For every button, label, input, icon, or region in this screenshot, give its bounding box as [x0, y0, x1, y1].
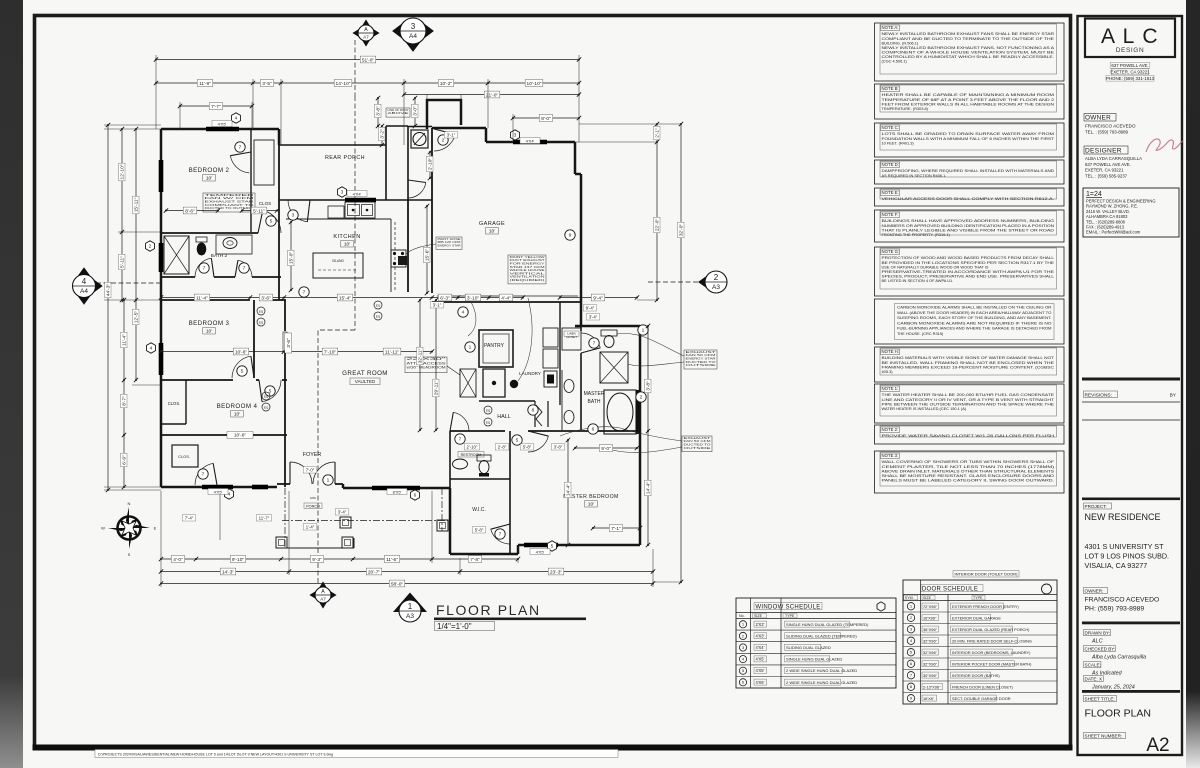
svg-text:A4: A4: [80, 288, 88, 295]
svg-text:A: A: [364, 27, 368, 33]
right dim 2-1/22-0: [656, 124, 658, 300]
bedroom2 closet door arc: [230, 156, 249, 173]
svg-text:OUTSIDE: OUTSIDE: [686, 363, 716, 367]
svg-text:NOTE E:: NOTE E:: [882, 190, 899, 195]
svg-text:3: 3: [514, 133, 517, 139]
svg-text:NOTE A:: NOTE A:: [882, 25, 899, 30]
svg-text:CARBON MONOXIDE ALARMS ARE NOT: CARBON MONOXIDE ALARMS ARE NOT REQUIRED …: [897, 320, 1052, 325]
svg-text:EQ: EQ: [259, 309, 264, 313]
svg-text:7'-1": 7'-1": [611, 526, 621, 532]
bottom dim row y571: [161, 571, 653, 573]
svg-text:W: W: [101, 526, 105, 531]
svg-text:4'-0": 4'-0": [173, 557, 183, 563]
wall bedroom2 bottom: [161, 232, 258, 234]
svg-text:5: 5: [516, 438, 519, 444]
svg-text:SINGLE HUNG DUAL GLAZED (TEMP: SINGLE HUNG DUAL GLAZED (TEMPERED): [786, 622, 869, 627]
svg-text:3'-6": 3'-6": [261, 295, 271, 301]
hex window numbers: [232, 113, 241, 123]
sheet number: [1084, 733, 1126, 739]
clos2 lower closet: [172, 445, 198, 467]
bedroom4 bottom wall: [161, 434, 287, 436]
svg-text:11'-4": 11'-4": [196, 295, 208, 301]
svg-text:ABOVE: ABOVE: [388, 111, 409, 115]
circled door numbers: [235, 142, 245, 152]
svg-text:CONTROLLED BY A HUMIDISTAT WHI: CONTROLLED BY A HUMIDISTAT WHICH SHALL B…: [882, 54, 1055, 59]
svg-text:32"X96": 32"X96": [923, 661, 938, 666]
svg-text:OUTSIDE: OUTSIDE: [684, 446, 711, 450]
svg-text:EXTERIOR DUAL GLAZED (REAR POR: EXTERIOR DUAL GLAZED (REAR PORCH): [952, 627, 1030, 632]
svg-text:4'X3': 4'X3': [756, 633, 765, 638]
svg-text:2: 2: [714, 273, 719, 282]
svg-text:W.I.C.: W.I.C.: [472, 507, 486, 513]
left extension lines: [104, 128, 161, 130]
svg-text:9'-3": 9'-3": [312, 557, 322, 563]
svg-text:EQ: EQ: [259, 320, 264, 324]
svg-text:FLOOR PLAN: FLOOR PLAN: [436, 602, 541, 618]
svg-text:23'-3": 23'-3": [550, 569, 563, 575]
svg-text:8'X5': 8'X5': [393, 489, 402, 494]
svg-text:3'-8": 3'-8": [646, 381, 652, 391]
svg-text:637 POWELL AVE AVE.: 637 POWELL AVE AVE.: [1085, 162, 1131, 167]
svg-text:2: 2: [149, 244, 152, 250]
exterior wall: master bedroom bottom: [518, 544, 640, 547]
bottom window bedroom4: [202, 485, 233, 490]
svg-text:INTERIOR DOOR (TOILET DOOR): INTERIOR DOOR (TOILET DOOR): [955, 572, 1019, 577]
svg-text:36"X96": 36"X96": [923, 627, 938, 632]
svg-text:NOTE F:: NOTE F:: [882, 212, 899, 217]
room label restroom: [458, 452, 484, 458]
owner2 block: [1084, 588, 1108, 594]
svg-text:PANTRY: PANTRY: [484, 343, 504, 349]
svg-text:4'X5': 4'X5': [536, 549, 545, 554]
svg-text:ALBA LYDA CARRASQUILLA: ALBA LYDA CARRASQUILLA: [1085, 156, 1142, 161]
svg-text:1: 1: [469, 345, 472, 351]
porch window dims: [182, 515, 196, 521]
mb door arc: [528, 436, 548, 452]
svg-text:SECT. DOUBLE GARAGE DOOR: SECT. DOUBLE GARAGE DOOR: [952, 696, 1011, 701]
svg-text:KITCHEN: KITCHEN: [333, 234, 360, 240]
svg-text:VISALIA, CA 93277: VISALIA, CA 93277: [1085, 561, 1148, 570]
page backdrop right dark strip: [1186, 0, 1200, 768]
svg-text:4'X4': 4'X4': [756, 645, 765, 650]
svg-text:3: 3: [292, 213, 295, 219]
linen closet: [562, 328, 581, 350]
svg-text:DATE: X: DATE: X: [1085, 677, 1103, 682]
clos left walls: [185, 380, 187, 424]
svg-text:14'-3": 14'-3": [222, 569, 235, 575]
note box NOTE G:: [875, 247, 1065, 296]
svg-text:2-13"X96": 2-13"X96": [923, 684, 941, 689]
svg-text:7: 7: [303, 290, 306, 296]
svg-text:BEDROOM 2: BEDROOM 2: [189, 167, 230, 174]
svg-text:EQ: EQ: [264, 394, 269, 398]
svg-text:405.3): 405.3): [882, 369, 894, 374]
door schedule table: [953, 571, 1019, 578]
svg-text:9: 9: [569, 233, 572, 239]
svg-text:15'-11": 15'-11": [134, 197, 140, 212]
svg-text:32'-0": 32'-0": [679, 224, 685, 237]
svg-text:EQ: EQ: [264, 405, 269, 409]
svg-text:2'-10": 2'-10": [428, 158, 434, 171]
svg-text:ISLAND: ISLAND: [332, 259, 344, 263]
svg-text:A7: A7: [320, 597, 326, 602]
note box NOTE C:: [875, 123, 1065, 157]
svg-text:15'-0": 15'-0": [289, 252, 295, 265]
designer red signature: [1146, 139, 1183, 152]
svg-text:6'-9": 6'-9": [122, 455, 128, 465]
svg-text:58'-0": 58'-0": [391, 581, 404, 587]
svg-text:NOTE B:: NOTE B:: [882, 86, 899, 91]
top dim 21-0: [404, 94, 579, 96]
svg-text:7'-4": 7'-4": [185, 516, 194, 521]
drawn-by block: [1082, 622, 1180, 625]
svg-text:4'X5': 4'X5': [756, 680, 765, 685]
svg-text:THE HOUSE. (CRC R315): THE HOUSE. (CRC R315): [897, 331, 944, 336]
svg-text:CLOSET: CLOSET: [566, 335, 577, 339]
svg-text:8'-7": 8'-7": [122, 396, 128, 406]
svg-text:12'-10": 12'-10": [120, 164, 126, 179]
washer dryer: [543, 328, 558, 347]
svg-text:BATH: BATH: [588, 399, 601, 405]
svg-text:4: 4: [462, 310, 465, 316]
svg-text:TEL. : (559) 585-9237: TEL. : (559) 585-9237: [1085, 173, 1128, 178]
svg-text:3'-8": 3'-8": [554, 445, 563, 450]
svg-text:51'-0": 51'-0": [362, 57, 375, 63]
exterior wall: bottom left block: [161, 486, 277, 489]
svg-text:32'-11": 32'-11": [418, 348, 424, 363]
svg-text:12'-5": 12'-5": [134, 311, 140, 324]
right dim 32-0: [680, 124, 682, 582]
svg-text:3'-4": 3'-4": [589, 315, 598, 320]
note box NOTE 3:: [875, 451, 1065, 493]
svg-text:ATTIC ACCESS: ATTIC ACCESS: [407, 361, 446, 365]
dim 9-0 master bath: [575, 447, 637, 449]
svg-text:4'X5': 4'X5': [218, 121, 227, 126]
front patio roof dash-dot lines: [282, 520, 448, 522]
svg-text:7'-7": 7'-7": [211, 104, 221, 110]
exterior wall: bedroom2 top: [161, 128, 279, 131]
svg-text:15'-4": 15'-4": [339, 295, 352, 301]
svg-text:3'-2": 3'-2": [380, 129, 386, 139]
svg-text:4'X5': 4'X5': [214, 489, 223, 494]
exterior wall: right side laundry: [580, 302, 583, 326]
svg-text:NOTE 1:: NOTE 1:: [882, 386, 899, 391]
top extension lines: [155, 55, 157, 129]
svg-text:6: 6: [592, 427, 595, 433]
section marker 1/A3 bottom: [393, 593, 427, 613]
svg-text:1: 1: [642, 328, 645, 334]
small boxed dims various: [414, 98, 416, 126]
svg-text:3'-1": 3'-1": [447, 133, 456, 138]
svg-text:3'-5": 3'-5": [262, 81, 272, 87]
svg-text:CLOS.: CLOS.: [168, 401, 181, 406]
svg-text:VEHICULAR ACCESS DOOR SHALL CO: VEHICULAR ACCESS DOOR SHALL COMPLY WITH …: [882, 196, 1055, 201]
svg-text:EMAIL : PerfectWM@aol.com: EMAIL : PerfectWM@aol.com: [1086, 230, 1141, 235]
garage hose note: [436, 237, 462, 249]
svg-text:TYPE: TYPE: [785, 614, 795, 618]
svg-text:SHEET TITLE:: SHEET TITLE:: [1085, 697, 1115, 702]
svg-text:7: 7: [243, 266, 246, 272]
svg-text:2'X3': 2'X3': [756, 622, 765, 627]
svg-text:NOTE 2:: NOTE 2:: [882, 427, 899, 432]
svg-text:7: 7: [202, 472, 205, 478]
svg-text:11'-11": 11'-11": [385, 349, 399, 355]
mid dim 9-4: [560, 297, 637, 299]
svg-text:SHEET NUMBER:: SHEET NUMBER:: [1085, 734, 1123, 739]
kitchen range: [391, 250, 406, 267]
bedroom4 bottom dim: [227, 432, 253, 439]
svg-text:10 FEET. (R401.3): 10 FEET. (R401.3): [882, 140, 915, 145]
bedroom2 notes: [203, 193, 255, 212]
note box NOTE H:: [875, 347, 1065, 382]
svg-text:20 MIN. FIRE RATED DOOR SELF-C: 20 MIN. FIRE RATED DOOR SELF-CLOSING: [952, 638, 1032, 643]
svg-text:SIZE: SIZE: [923, 596, 932, 600]
svg-text:8′-6": 8′-6": [185, 208, 195, 214]
svg-text:44'-3": 44'-3": [106, 284, 112, 297]
exterior wall: foyer front w/ doors: [277, 483, 290, 485]
svg-text:2: 2: [442, 138, 445, 144]
wh closet: [411, 130, 428, 148]
foyer double door arcs: [289, 462, 291, 484]
svg-text:10'-10": 10'-10": [527, 81, 542, 87]
svg-text:637 POWELL AVE.: 637 POWELL AVE.: [1111, 63, 1148, 68]
exhaust note master bath: [684, 350, 717, 369]
bedroom3 right wall: [253, 300, 255, 378]
svg-text:2'-8": 2'-8": [498, 445, 507, 450]
svg-text:3: 3: [411, 22, 416, 31]
svg-text:6'-3": 6'-3": [440, 295, 450, 301]
owner block: [1084, 114, 1116, 122]
porch-kitchen door arc: [288, 200, 307, 222]
svg-text:20'-7": 20'-7": [368, 569, 381, 575]
svg-text:5'-8": 5'-8": [523, 445, 532, 450]
svg-text:E: E: [154, 526, 157, 531]
svg-text:PROVIDE WATER SAVING CLOSET W/: PROVIDE WATER SAVING CLOSET W/1.28 GALLO…: [882, 433, 1055, 438]
svg-text:4'X4': 4'X4': [526, 138, 535, 143]
svg-text:SCALE:: SCALE:: [1085, 663, 1101, 668]
porch right wall: [385, 126, 387, 200]
svg-text:11'-7": 11'-7": [259, 516, 270, 521]
svg-text:EQ: EQ: [376, 314, 381, 318]
compass rose: [108, 507, 150, 549]
svg-text:PANELS MUST BE LABELED CATEGO: PANELS MUST BE LABELED CATEGORY II, SWIN…: [882, 477, 1055, 482]
title block address: [1110, 63, 1150, 69]
bottom window right of foyer: [372, 486, 420, 491]
kitchen window: [345, 198, 376, 203]
svg-text:AS REQUIRED IN SECTION R406.1.: AS REQUIRED IN SECTION R406.1.: [882, 173, 947, 178]
svg-text:WALL (ABOVE THE DOOR HEADER) I: WALL (ABOVE THE DOOR HEADER) IN EACH ARE…: [897, 310, 1052, 315]
svg-text:A L C: A L C: [1101, 25, 1159, 48]
svg-text:REVISIONS:: REVISIONS:: [1085, 393, 1112, 399]
left wall window bedroom3: [159, 343, 164, 375]
note box NOTE B:: [875, 84, 1065, 119]
svg-text:NOTE G:: NOTE G:: [882, 249, 900, 254]
svg-text:OWNER:: OWNER:: [1085, 589, 1104, 594]
svg-text:No.: No.: [739, 614, 745, 618]
svg-text:DESIGN: DESIGN: [1116, 47, 1145, 54]
note box NOTE D:: [875, 160, 1065, 184]
svg-text:10': 10': [206, 176, 212, 182]
svg-text:INTERIOR DOOR (BEDROOMS, LAUND: INTERIOR DOOR (BEDROOMS, LAUNDRY): [952, 650, 1031, 655]
restroom toilet: [477, 455, 491, 461]
room label porch: [304, 503, 322, 509]
hall walls: [479, 400, 535, 402]
master tub: [604, 390, 636, 434]
svg-text:11'-9": 11'-9": [199, 81, 211, 87]
svg-text:1'-4": 1'-4": [306, 525, 315, 530]
porch post 4: [437, 520, 448, 531]
svg-text:2'-1": 2'-1": [655, 128, 661, 138]
closet band bedroom2: [250, 129, 252, 232]
wall bedroom2 block right: [278, 145, 280, 300]
kitchen right wall: [407, 200, 409, 292]
svg-text:7: 7: [593, 341, 596, 347]
svg-text:3'-0": 3'-0": [413, 106, 419, 116]
svg-text:4301 S UNIVERSITY ST: 4301 S UNIVERSITY ST: [1085, 542, 1165, 551]
bottom dim 58-0: [161, 583, 653, 585]
garage top window: [513, 140, 547, 145]
svg-text:NOTE C:: NOTE C:: [882, 125, 899, 130]
svg-text:2'-10": 2'-10": [467, 445, 478, 450]
svg-text:32"X96": 32"X96": [923, 638, 938, 643]
svg-text:EXETER, CA 93221: EXETER, CA 93221: [1110, 69, 1150, 74]
svg-text:3'-4": 3'-4": [338, 510, 347, 515]
top dim 7-7: [180, 105, 252, 107]
sheet title block: [1082, 690, 1180, 693]
master bath vanity: [561, 370, 563, 430]
svg-text:10': 10': [588, 502, 594, 508]
svg-text:3: 3: [341, 190, 344, 196]
attic access note: [405, 357, 447, 373]
note box NOTE E:: [875, 188, 1065, 206]
svg-text:RESTROOM: RESTROOM: [461, 453, 482, 457]
svg-text:BEDROOM 4: BEDROOM 4: [217, 403, 258, 410]
svg-text:SLIDING DUAL GLAZED (TEMPERED): SLIDING DUAL GLAZED (TEMPERED): [786, 633, 857, 638]
svg-text:1/4"=1'-0": 1/4"=1'-0": [437, 622, 472, 631]
svg-text:PHONE: (559) 331-1613: PHONE: (559) 331-1613: [1106, 76, 1155, 81]
svg-text:SIZE: SIZE: [754, 614, 763, 618]
svg-text:FLOOR PLAN: FLOOR PLAN: [1085, 708, 1152, 720]
svg-text:5: 5: [551, 544, 554, 550]
laundry floor drain: [510, 380, 518, 388]
laundry sink: [544, 371, 557, 387]
svg-text:10': 10': [489, 229, 495, 235]
svg-text:2 WIDE SINGLE HUNG DUAL GLAZED: 2 WIDE SINGLE HUNG DUAL GLAZED: [786, 680, 857, 685]
svg-text:5'-8": 5'-8": [475, 528, 484, 533]
left dim col3: [135, 129, 137, 380]
strip top wall: [386, 125, 408, 127]
garage bottom wall: [432, 301, 581, 303]
svg-text:WATER HEATER IS INSTALLED.(CEC: WATER HEATER IS INSTALLED.(CEC 150.1 (A): [882, 406, 967, 411]
svg-text:FRENCH DOOR (LINEN CLOSET): FRENCH DOOR (LINEN CLOSET): [952, 684, 1013, 689]
svg-text:4'X4': 4'X4': [353, 191, 362, 196]
mb exhaust note2: [682, 436, 712, 452]
svg-text:14'-4": 14'-4": [646, 482, 652, 495]
bedroom4 door arc: [262, 380, 281, 402]
svg-text:7'-0": 7'-0": [306, 468, 315, 473]
svg-text:16'X96": 16'X96": [923, 615, 937, 620]
exterior wall: foyer side: [342, 484, 345, 488]
svg-text:DUCTED TO OUTSIDE: DUCTED TO OUTSIDE: [205, 206, 254, 210]
project block: [1082, 498, 1180, 501]
left dim 44-3: [107, 125, 109, 490]
hallway wall y300: [161, 299, 250, 301]
svg-text:NOTE D:: NOTE D:: [882, 162, 899, 167]
svg-text:ENERGY STAR: ENERGY STAR: [438, 244, 461, 248]
svg-text:9'-4": 9'-4": [593, 295, 603, 301]
right dim master bath col: [647, 326, 649, 545]
svg-text:LAUNDRY: LAUNDRY: [519, 371, 541, 376]
bath2 door arcs: [195, 258, 211, 277]
svg-text:8'-0": 8'-0": [541, 116, 551, 122]
engineer block: [1083, 188, 1179, 237]
svg-text:SLIDING DUAL GLAZED: SLIDING DUAL GLAZED: [786, 645, 831, 650]
svg-text:CHECKED BY:: CHECKED BY:: [1085, 647, 1116, 652]
svg-text:10': 10': [234, 412, 240, 418]
svg-text:INTERIOR POCKET DOOR (MASTER B: INTERIOR POCKET DOOR (MASTER BATH): [952, 661, 1032, 666]
svg-text:VAULTED: VAULTED: [355, 379, 376, 384]
svg-text:GARAGE: GARAGE: [479, 221, 505, 227]
great room left wall: [284, 300, 286, 331]
svg-text:CARBON MONOXIDE ALARMS SHALL B: CARBON MONOXIDE ALARMS SHALL BE INSTALLE…: [897, 305, 1052, 310]
note box NOTE A:: [875, 23, 1065, 81]
svg-text:1: 1: [408, 602, 413, 611]
kitchen dw: [328, 206, 344, 218]
note box NOTE F:: [875, 210, 1065, 242]
svg-text:LOT 9 LOS PINOS SUBD.: LOT 9 LOS PINOS SUBD.: [1085, 552, 1170, 561]
svg-text:29'-11": 29'-11": [434, 380, 440, 395]
svg-text:14'-4": 14'-4": [566, 484, 572, 497]
svg-text:EXETER, CA 93221: EXETER, CA 93221: [1085, 168, 1124, 173]
svg-text:MASTER: MASTER: [584, 391, 605, 397]
hall-restroom door arc: [453, 412, 469, 431]
suite wall x581: [580, 302, 582, 331]
exterior wall: step to porch: [278, 129, 281, 145]
bath2 left window: [159, 243, 164, 272]
window schedule table: [736, 598, 896, 688]
exterior wall: garage top: [432, 127, 486, 130]
laundry walls: [559, 302, 561, 326]
note box NOTE 1:: [875, 384, 1065, 423]
exterior wall: bottom center: [343, 487, 450, 490]
svg-text:EQ: EQ: [486, 408, 491, 412]
bedroom3 bottom wall: [161, 379, 233, 381]
wall bath2 bottom: [161, 276, 195, 278]
designer block: [1084, 146, 1128, 154]
porch post 3: [340, 517, 351, 528]
window size labels: [212, 121, 232, 127]
eq circles: [257, 307, 265, 315]
svg-text:A7: A7: [363, 35, 369, 40]
svg-text:9'-0": 9'-0": [601, 446, 611, 452]
svg-text:BATH 2: BATH 2: [211, 253, 228, 259]
section marker 4/A4 left: [77, 267, 90, 276]
exterior wall: left side: [160, 129, 163, 487]
restroom walls: [449, 431, 451, 488]
top dim row2: [156, 82, 579, 84]
exterior wall: wh closet top: [408, 126, 432, 128]
section marker A/A7 top: [352, 28, 360, 37]
roof line note: [386, 108, 410, 117]
kitchen sink: [345, 202, 375, 218]
svg-text:SYM.: SYM.: [905, 596, 914, 600]
svg-text:7: 7: [203, 266, 206, 272]
svg-text:BEDROOM 3: BEDROOM 3: [189, 320, 230, 327]
svg-text:11'-6": 11'-6": [386, 557, 398, 563]
svg-text:REAR PORCH: REAR PORCH: [325, 155, 365, 161]
top dim 51-0: [156, 59, 579, 61]
svg-text:7: 7: [499, 532, 502, 538]
